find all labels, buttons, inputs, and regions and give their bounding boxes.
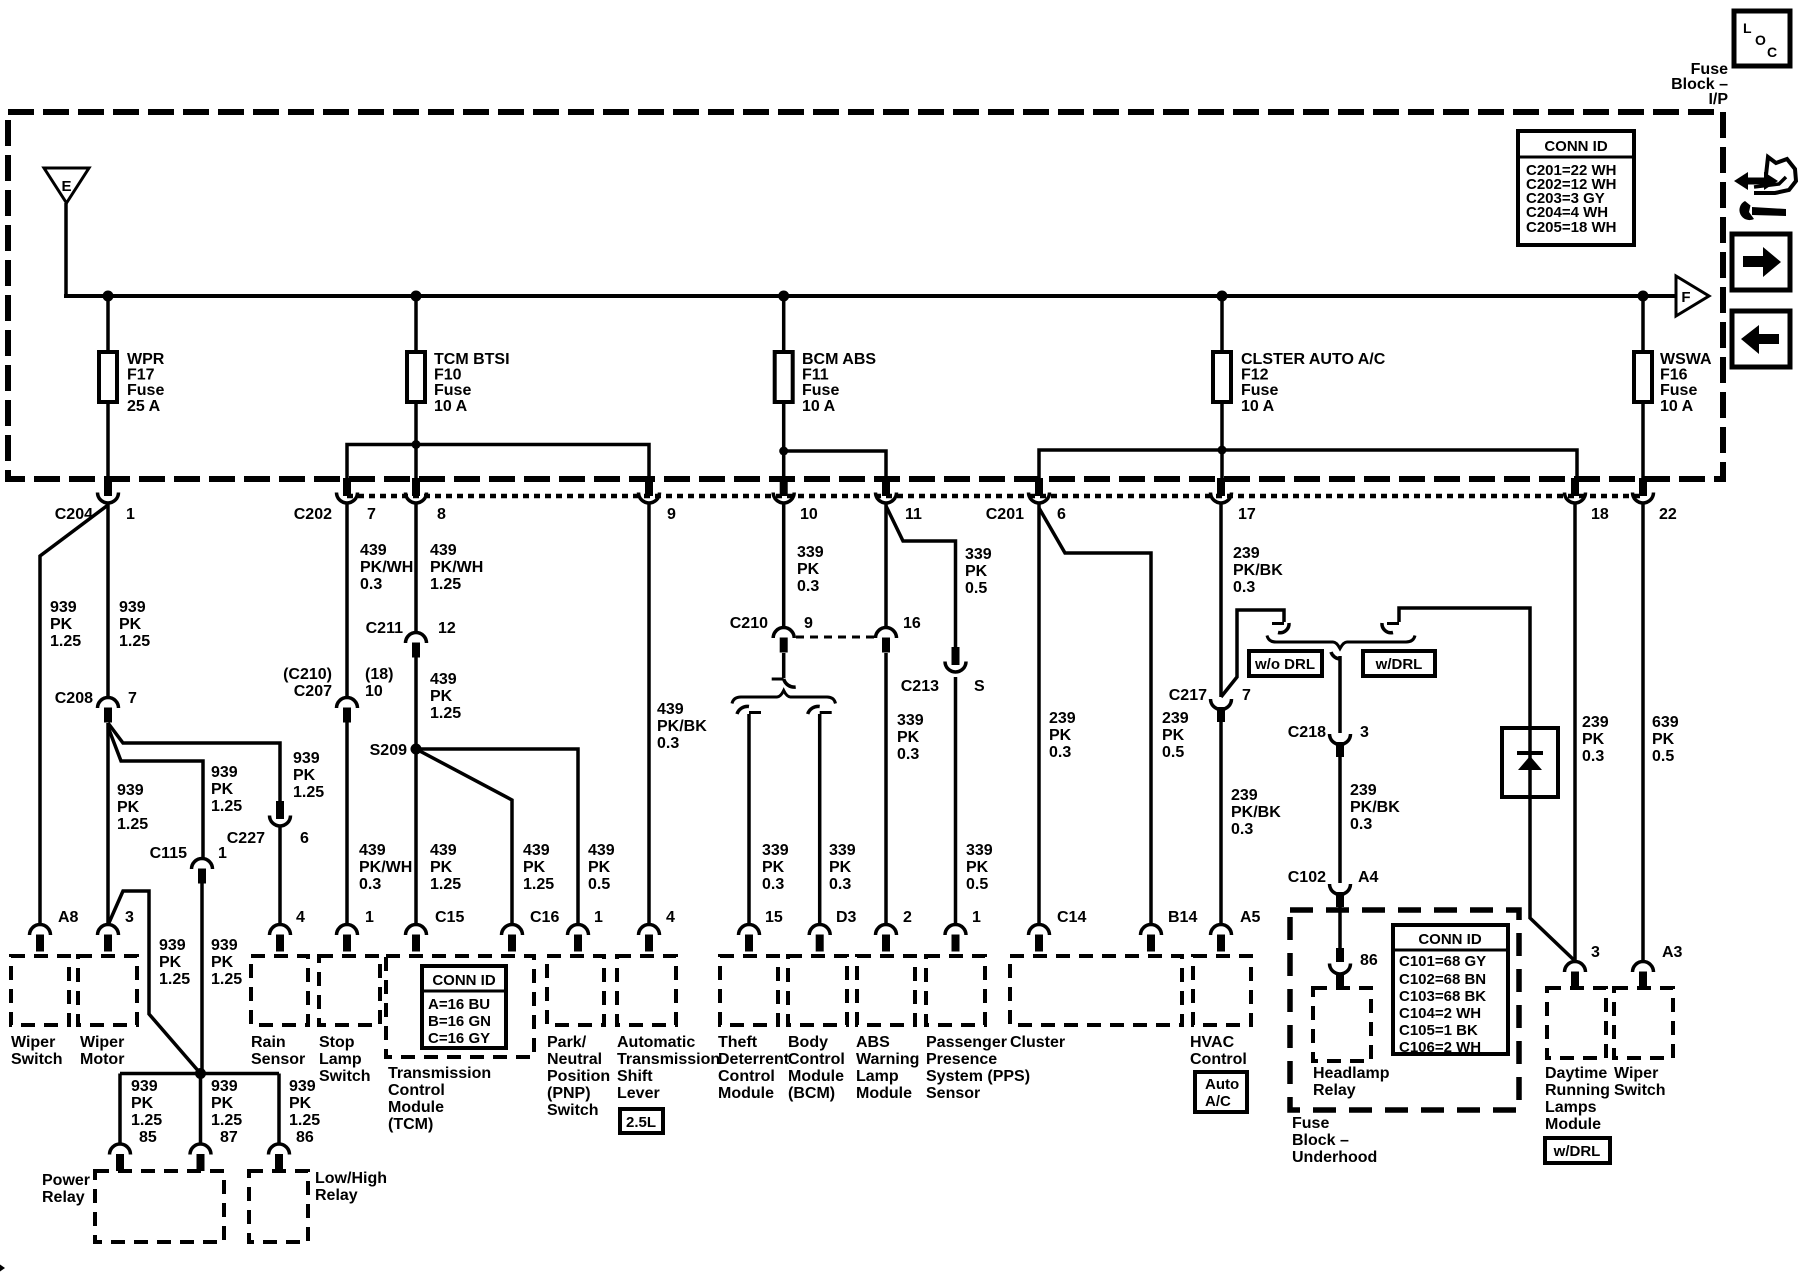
svg-text:C227: C227 xyxy=(227,830,265,847)
wire 939 PK C227 to rain sensor pin 4 xyxy=(278,825,282,925)
splice S209 xyxy=(411,744,422,755)
connector stop lamp switch pin 1 xyxy=(337,925,358,952)
svg-text:11: 11 xyxy=(905,506,922,523)
power feed triangle E xyxy=(44,168,89,203)
wire 439 PK S209 to TCM C16 xyxy=(416,749,512,925)
branch wire F11 to pin 11 xyxy=(784,451,886,480)
svg-text:7: 7 xyxy=(367,506,376,523)
connector C201 pin 17 xyxy=(1211,478,1232,503)
CONN ID table TCM xyxy=(422,966,506,1048)
wire 939 PK C208 branch to C115 xyxy=(108,727,203,859)
component box Body Control Module xyxy=(788,956,847,1025)
svg-text:C101=68 GYC102=68 BNC103=68 BK: C101=68 GYC102=68 BNC103=68 BKC104=2 WHC… xyxy=(1399,953,1486,1056)
component box Cluster xyxy=(1010,956,1182,1025)
connector PPS pin 1 xyxy=(945,925,966,952)
svg-text:w/DRL: w/DRL xyxy=(1553,1143,1601,1160)
half connector w/DRL side xyxy=(1382,623,1399,633)
page margin mark xyxy=(0,1265,5,1272)
svg-text:8: 8 xyxy=(437,506,446,523)
svg-text:WPRF17Fuse25 A: WPRF17Fuse25 A xyxy=(127,351,165,415)
svg-text:1: 1 xyxy=(972,909,981,926)
svg-text:B14: B14 xyxy=(1168,909,1197,926)
connector headlamp relay pin 86 xyxy=(1330,948,1351,987)
svg-text:C217: C217 xyxy=(1169,687,1207,704)
svg-text:w/o DRL: w/o DRL xyxy=(1254,656,1315,673)
wire 439 PK/WH C207 to stop lamp switch xyxy=(345,722,349,925)
connector C218 pin 3 xyxy=(1330,734,1351,757)
wire bus to fuse F17 xyxy=(106,296,110,352)
wire C217 branch to w/o DRL connector xyxy=(1221,610,1284,697)
svg-text:C213: C213 xyxy=(901,678,939,695)
half connector w/o DRL side xyxy=(1272,623,1289,633)
component box Low/High Relay xyxy=(249,1171,308,1242)
wire fuse F16 to connector 22 xyxy=(1641,402,1645,480)
svg-text:C218: C218 xyxy=(1288,724,1326,741)
component box ABS Warning Lamp Module xyxy=(857,956,915,1025)
diode symbol xyxy=(1517,753,1543,770)
wire bus to fuse F16 xyxy=(1641,296,1645,352)
diode assembly box xyxy=(1502,728,1558,797)
CONN ID table underhood xyxy=(1393,925,1508,1056)
connector power relay pin 85 xyxy=(110,1144,131,1171)
svg-text:2.5L: 2.5L xyxy=(626,1114,656,1131)
svg-text:WiperMotor: WiperMotor xyxy=(80,1034,124,1068)
wire C210-9 to in-line half connector xyxy=(782,653,786,678)
connector C208 pin 7 xyxy=(98,698,119,723)
component box PNP Switch xyxy=(547,956,604,1025)
svg-text:A=16 BUB=16 GNC=16 GY: A=16 BUB=16 GNC=16 GY xyxy=(428,996,491,1047)
svg-text:85: 85 xyxy=(139,1129,157,1146)
connector C211 pin 12 xyxy=(406,633,427,658)
fuse block I/P dashed boundary box xyxy=(8,112,1723,479)
wire fuse F17 to connector C204 xyxy=(106,402,110,480)
svg-text:1: 1 xyxy=(126,506,135,523)
connector HVAC pin A5 xyxy=(1211,925,1232,952)
wire 239 PK C201-6 to cluster C14 xyxy=(1037,503,1041,925)
connector C213 pin S xyxy=(945,647,966,672)
off-page arrow F xyxy=(1676,276,1709,316)
svg-text:6: 6 xyxy=(300,830,309,847)
svg-text:9: 9 xyxy=(667,506,676,523)
svg-text:D3: D3 xyxy=(836,909,857,926)
component box Transmission Control Module xyxy=(386,956,534,1057)
component box Wiper Switch right xyxy=(1614,988,1673,1058)
connector C202 pin 9 xyxy=(639,478,660,503)
connector theft deterrent pin 15 xyxy=(739,925,760,952)
junction bus to F17 xyxy=(103,291,114,302)
wire 339 PK pin 10 to C210-9 xyxy=(782,503,786,628)
svg-text:C201: C201 xyxy=(986,506,1024,523)
wire 239 PK/BK C217 to HVAC A5 xyxy=(1219,722,1223,925)
svg-text:L: L xyxy=(1743,20,1752,36)
wire to low/high relay 86 xyxy=(277,1074,281,1146)
connector TCM pin C16 xyxy=(502,925,523,952)
wire 339 PK to theft deterrent pin 15 xyxy=(747,714,751,925)
connector cluster pin B14 xyxy=(1141,925,1162,952)
connector C202 pin 10 xyxy=(773,478,794,503)
junction F12 branch xyxy=(1218,446,1227,455)
svg-text:S209: S209 xyxy=(370,742,407,759)
component box Stop Lamp Switch xyxy=(319,956,380,1025)
branch wire F12 to pins 6 and 18 xyxy=(1039,450,1577,480)
fuse block underhood dashed box xyxy=(1290,910,1519,1110)
CONN ID table fuse block I/P xyxy=(1518,131,1634,245)
connector TCM pin C15 xyxy=(406,925,427,952)
svg-text:7: 7 xyxy=(128,690,137,707)
branch wire F10 to pins 7 and 9 xyxy=(347,445,649,481)
fuse F11 BCM ABS 10A xyxy=(775,352,793,402)
fuse F17 WPR 25A xyxy=(99,352,117,402)
half connector upper at BCM brace xyxy=(772,679,796,687)
wire 439 PK/WH pin 8 to C211 xyxy=(414,503,418,633)
connector power relay pin 87 xyxy=(190,1144,211,1171)
connector C102 pin A4 xyxy=(1330,884,1351,907)
connector BCM pin D3 xyxy=(809,925,830,952)
half connector lower left at BCM brace xyxy=(737,706,761,714)
component box Power Relay xyxy=(95,1171,224,1242)
svg-text:C202: C202 xyxy=(294,506,332,523)
svg-text:1: 1 xyxy=(594,909,603,926)
svg-text:7: 7 xyxy=(1242,687,1251,704)
fuse F16 WSWA 10A xyxy=(1634,352,1652,402)
svg-text:6: 6 xyxy=(1057,506,1066,523)
svg-text:PowerRelay: PowerRelay xyxy=(42,1172,90,1206)
svg-text:17: 17 xyxy=(1238,506,1256,523)
component box Automatic Transmission Shift Lever xyxy=(617,956,676,1025)
svg-text:4: 4 xyxy=(666,909,675,926)
wire 339 PK C210-16 to ABS warning lamp xyxy=(884,653,888,925)
wire 939 PK wiper motor to relay junction xyxy=(108,891,201,1074)
connector C115 pin 1 xyxy=(192,859,213,884)
half connector below DRL brace xyxy=(1331,652,1340,659)
wire 239 PK C201-6 branch to cluster B14 xyxy=(1039,508,1151,925)
wire fuse F10 to branch xyxy=(414,402,418,480)
option tag w/DRL box bottom xyxy=(1545,1138,1610,1163)
wire 939 PK C115 to relay junction xyxy=(200,883,204,1074)
junction F11 branch xyxy=(779,447,788,456)
fuse F10 TCM BTSI 10A xyxy=(407,352,425,402)
svg-text:C: C xyxy=(1767,44,1777,60)
wire 639 PK pin 22 to wiper switch A3 xyxy=(1641,503,1645,961)
fuse F12 CLSTER AUTO A/C 10A xyxy=(1213,352,1231,402)
service info icon arrows and wrench xyxy=(1734,157,1796,220)
component box PPS Sensor xyxy=(926,956,985,1025)
option tag Auto A/C box xyxy=(1195,1072,1247,1112)
junction relay feed xyxy=(195,1068,206,1079)
wire to power relay 87 xyxy=(199,1074,203,1146)
connector C207 pin 10 xyxy=(337,698,358,723)
option tag w/DRL box xyxy=(1363,651,1435,676)
svg-text:4: 4 xyxy=(296,909,305,926)
connector C201 pin 18 xyxy=(1565,478,1586,503)
brace for DRL options to C218 xyxy=(1267,636,1415,649)
svg-text:S: S xyxy=(974,678,985,695)
svg-text:A8: A8 xyxy=(58,909,79,926)
wire DRL brace to C218 xyxy=(1338,656,1342,733)
svg-text:WiperSwitch: WiperSwitch xyxy=(11,1034,63,1068)
connector wiper switch pin A8 xyxy=(30,925,51,952)
component box Wiper Motor xyxy=(78,956,137,1025)
connector wiper switch pin A3 xyxy=(1633,962,1654,988)
navigation arrow right box xyxy=(1732,234,1790,290)
connector shift lever pin 4 xyxy=(639,925,660,952)
svg-text:C201=22 WHC202=12 WHC203=3 GYC: C201=22 WHC202=12 WHC203=3 GYC204=4 WHC2… xyxy=(1526,162,1616,236)
junction F10 branch xyxy=(412,440,421,449)
fuse block connector dotted line xyxy=(347,494,1643,499)
junction bus to F12 xyxy=(1217,291,1228,302)
wire 939 PK C204 branch to wiper switch A8 xyxy=(40,505,108,925)
svg-text:A3: A3 xyxy=(1662,944,1683,961)
svg-text:15: 15 xyxy=(765,909,783,926)
svg-text:w/DRL: w/DRL xyxy=(1375,656,1423,673)
svg-text:Cluster: Cluster xyxy=(1010,1034,1065,1051)
svg-text:86: 86 xyxy=(1360,952,1378,969)
wire 339 PK C213 to PPS sensor xyxy=(954,677,958,925)
svg-text:3: 3 xyxy=(1360,724,1369,741)
wire bus to fuse F10 xyxy=(414,296,418,352)
svg-text:C208: C208 xyxy=(55,690,93,707)
connector C202 pin 8 xyxy=(406,478,427,503)
connector C227 pin 6 xyxy=(270,801,291,826)
connector C217 pin 7 xyxy=(1211,699,1232,722)
connector C202 pin 11 xyxy=(876,478,897,503)
connector wiper motor pin 3 xyxy=(98,925,119,952)
wire 339 PK to BCM pin D3 xyxy=(818,714,822,925)
connector low/high relay pin 86 xyxy=(269,1144,290,1171)
wire 439 PK C211 to S209 xyxy=(414,657,418,749)
wire bus to fuse F12 xyxy=(1220,296,1224,352)
svg-text:CONN ID: CONN ID xyxy=(1418,931,1482,948)
svg-text:C211: C211 xyxy=(366,620,403,637)
svg-text:22: 22 xyxy=(1659,506,1677,523)
wire bus to fuse F11 xyxy=(782,296,786,352)
wire 239 PK/BK C218 to C102 xyxy=(1338,757,1342,883)
junction bus to F10 xyxy=(411,291,422,302)
connector C202 pin 7 xyxy=(337,478,358,503)
svg-text:CONN ID: CONN ID xyxy=(432,972,496,989)
wire fuse F11 to connector 10 xyxy=(782,402,786,480)
svg-text:A4: A4 xyxy=(1358,869,1379,886)
junction bus to F11 xyxy=(778,291,789,302)
svg-text:C16: C16 xyxy=(530,909,559,926)
wire from E to main bus xyxy=(64,203,68,296)
svg-text:2: 2 xyxy=(903,909,912,926)
svg-text:87: 87 xyxy=(220,1129,238,1146)
svg-text:O: O xyxy=(1755,32,1766,48)
wire 339 PK pin 11 branch to C213 xyxy=(886,506,956,648)
wire 939 PK C208 branch to C227 xyxy=(108,723,280,802)
wire 339 PK pin 11 to C210-16 xyxy=(884,503,888,628)
svg-text:C115: C115 xyxy=(150,845,187,862)
connector C210 pin 9 xyxy=(773,628,794,653)
wire relay junction bus xyxy=(120,1072,279,1076)
main bus wire xyxy=(64,294,1676,298)
wire 239 PK pin 18 to DRL module xyxy=(1573,503,1577,961)
connector C204 pin 1 xyxy=(98,478,119,503)
svg-text:9: 9 xyxy=(804,615,813,632)
svg-text:C14: C14 xyxy=(1057,909,1086,926)
svg-text:1: 1 xyxy=(365,909,374,926)
svg-text:E: E xyxy=(61,178,71,195)
dashed tie C210 pin 9 to pin 16 xyxy=(796,636,874,639)
svg-text:WiperSwitch: WiperSwitch xyxy=(1614,1065,1666,1099)
connector PNP switch pin 1 xyxy=(568,925,589,952)
component box Daytime Running Lamps Module xyxy=(1547,988,1606,1058)
wire C102 to headlamp relay 86 xyxy=(1338,907,1342,948)
connector C210 pin 16 xyxy=(876,628,897,653)
wire 439 PK S209 to PNP switch xyxy=(416,749,578,925)
wire 439 PK S209 to TCM C15 xyxy=(414,749,418,925)
LOC legend box xyxy=(1734,11,1790,66)
connector C201 pin 6 xyxy=(1029,478,1050,503)
connector rain sensor pin 4 xyxy=(270,925,291,952)
component box Headlamp Relay xyxy=(1313,988,1371,1061)
svg-text:12: 12 xyxy=(438,620,456,637)
wire diode to DRL module pin 3 xyxy=(1530,797,1575,961)
svg-text:1: 1 xyxy=(218,845,227,862)
wire 439 PK/BK pin 9 to shift lever xyxy=(647,503,651,925)
svg-text:86: 86 xyxy=(296,1129,314,1146)
component box HVAC Control xyxy=(1193,956,1251,1025)
svg-text:3: 3 xyxy=(125,909,134,926)
svg-text:18: 18 xyxy=(1591,506,1609,523)
connector DRL module pin 3 xyxy=(1565,962,1586,988)
wire to power relay 85 xyxy=(118,1074,122,1146)
component box Rain Sensor xyxy=(251,956,308,1025)
wire 939 PK C204 to C208 xyxy=(106,503,110,698)
navigation arrow left box xyxy=(1732,311,1790,367)
wire 439 PK/WH pin 7 to C207 xyxy=(345,503,349,698)
svg-text:C210: C210 xyxy=(730,615,768,632)
svg-text:CONN ID: CONN ID xyxy=(1544,138,1608,155)
svg-text:A5: A5 xyxy=(1240,909,1261,926)
component box Theft Deterrent Control Module xyxy=(720,956,778,1025)
connector C201 pin 22 xyxy=(1633,478,1654,503)
svg-text:16: 16 xyxy=(903,615,921,632)
wire w/DRL connector to diode xyxy=(1399,608,1530,728)
option tag w/o DRL box xyxy=(1249,651,1322,676)
option tag 2.5L box xyxy=(620,1109,663,1133)
wire through diode xyxy=(1528,728,1532,797)
connector cluster pin C14 xyxy=(1029,925,1050,952)
connector ABS warning pin 2 xyxy=(876,925,897,952)
half connector lower right at BCM brace xyxy=(808,706,832,714)
junction bus to F16 xyxy=(1638,291,1649,302)
brace for BCM splice to 15 and D3 xyxy=(732,691,836,704)
component box Wiper Switch xyxy=(11,956,69,1025)
svg-text:C102: C102 xyxy=(1288,869,1326,886)
svg-text:C15: C15 xyxy=(435,909,464,926)
wire fuse F12 to connector 17 xyxy=(1220,402,1224,480)
svg-text:F: F xyxy=(1681,289,1690,306)
svg-text:3: 3 xyxy=(1591,944,1600,961)
wire 939 PK C208 to wiper motor pin 3 xyxy=(106,723,110,925)
svg-text:10: 10 xyxy=(800,506,818,523)
wire 239 PK/BK pin 17 to C217 xyxy=(1219,503,1223,697)
